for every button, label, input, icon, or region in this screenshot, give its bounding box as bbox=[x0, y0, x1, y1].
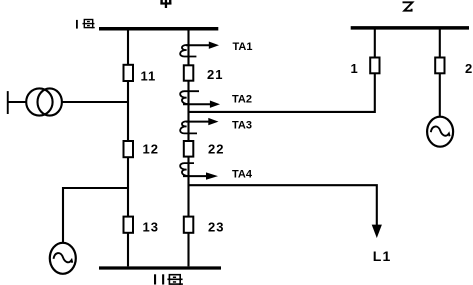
breaker 2 bbox=[435, 58, 444, 74]
breaker 23 bbox=[184, 217, 194, 233]
wire feeder 2 vertical (bus I to bus II) bbox=[187, 30, 189, 266]
arrow L1 head bbox=[372, 225, 382, 238]
svg-text:TA1: TA1 bbox=[233, 41, 253, 53]
breaker 22 bbox=[184, 141, 194, 157]
breaker 13 bbox=[124, 217, 134, 233]
bus 乙 (right busbar) bbox=[351, 26, 469, 30]
winding circle left bbox=[26, 88, 52, 115]
CT TA1 (coil on feeder 2) bbox=[180, 45, 196, 57]
svg-text:TA4: TA4 bbox=[232, 168, 253, 180]
svg-text:TA3: TA3 bbox=[232, 119, 252, 131]
breaker 1 bbox=[370, 58, 379, 74]
CT TA4 (coil on feeder 2, mirrored) bbox=[180, 163, 194, 176]
svg-text:23: 23 bbox=[208, 219, 224, 234]
svg-text:L1: L1 bbox=[373, 248, 392, 264]
generator G1 (left) bbox=[50, 243, 76, 274]
wire terminal to transformer bbox=[8, 101, 27, 103]
svg-text:22: 22 bbox=[208, 142, 224, 157]
wire drop 1 from bus 乙 bbox=[374, 29, 376, 58]
label 甲 (clipped at top edge) bbox=[160, 0, 171, 8]
bus II (lower busbar) bbox=[99, 266, 221, 269]
CT TA2 (coil on feeder 2, mirrored) bbox=[180, 91, 199, 104]
CT TA3 (coil on feeder 2) bbox=[180, 121, 197, 133]
wire drop 2 from bus 乙 bbox=[439, 29, 441, 58]
label II母 (bus II name) bbox=[154, 274, 164, 284]
terminal bar bbox=[7, 91, 9, 114]
arrow TA2 bbox=[183, 103, 211, 105]
svg-text:2: 2 bbox=[465, 61, 472, 76]
label I母 (bus I name) bbox=[76, 20, 78, 29]
arrow TA4 bbox=[183, 175, 207, 177]
wire generator G1 to feeder 1 bbox=[63, 188, 128, 243]
svg-text:12: 12 bbox=[143, 141, 159, 156]
breaker 21 bbox=[184, 65, 194, 80]
label 乙 bbox=[403, 2, 413, 10]
bus I (station 甲 upper busbar) bbox=[99, 27, 218, 31]
breaker 11 bbox=[124, 65, 134, 81]
svg-text:21: 21 bbox=[207, 67, 223, 82]
wire transformer to feeder 1 bbox=[62, 101, 128, 103]
wire tie line to bus 乙 drop 1 bbox=[189, 74, 375, 112]
generator G2 (right) bbox=[427, 117, 453, 147]
winding circle right bbox=[38, 88, 62, 115]
svg-text:TA2: TA2 bbox=[232, 93, 252, 105]
svg-text:13: 13 bbox=[143, 219, 159, 234]
arrow TA3 bbox=[186, 121, 209, 123]
svg-text:11: 11 bbox=[141, 69, 157, 84]
svg-text:1: 1 bbox=[351, 61, 358, 76]
wire L1 feeder (to load) bbox=[189, 185, 377, 226]
breaker 12 bbox=[124, 141, 134, 157]
wire breaker 2 to generator bbox=[439, 73, 441, 116]
wire feeder 1 vertical (bus I to bus II) bbox=[127, 30, 129, 266]
arrow TA1 bbox=[186, 44, 210, 46]
